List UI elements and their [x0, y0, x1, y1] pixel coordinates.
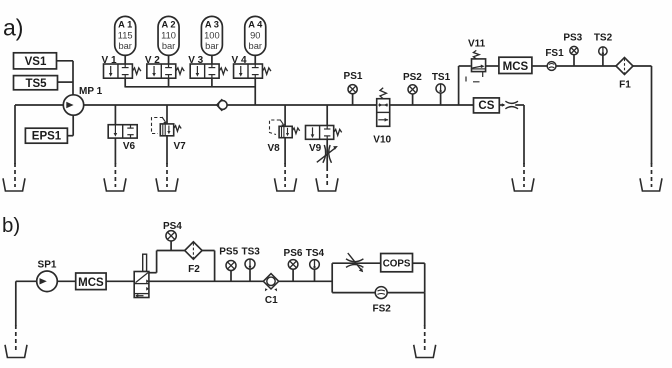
check valve C1 — [263, 274, 278, 292]
wire branch down to main line — [214, 251, 216, 282]
tank T9 — [414, 345, 436, 358]
svg-text:A 1: A 1 — [118, 20, 132, 30]
svg-text:CS: CS — [478, 100, 494, 112]
svg-text:PS5: PS5 — [219, 247, 238, 258]
wire valve to F2 branch — [149, 272, 157, 274]
valve V8 pilot dashed line — [270, 120, 285, 135]
tank T8 — [5, 345, 27, 358]
svg-text:FS1: FS1 — [545, 48, 564, 59]
wire V11 to MCS — [486, 65, 499, 67]
svg-text:F2: F2 — [188, 264, 200, 275]
svg-text:EPS1: EPS1 — [32, 131, 62, 143]
pressure sensor PS6 — [288, 260, 298, 270]
svg-text:TS5: TS5 — [25, 78, 47, 90]
wire bottom branch FS2 — [332, 292, 425, 294]
wire PS6 stem — [292, 269, 294, 281]
svg-text:110: 110 — [161, 30, 176, 40]
svg-text:V 1: V 1 — [102, 55, 117, 66]
wire valve V 3 down to manifold — [211, 78, 213, 87]
valve V11 pilot dashed line — [466, 77, 480, 82]
pump MP 1 — [63, 95, 83, 115]
wire SP1 to MCS — [57, 280, 75, 282]
main line section b — [149, 280, 332, 282]
svg-text:V10: V10 — [373, 135, 391, 146]
pressure sensor PS1 — [348, 85, 357, 94]
dashed drain to tank T8 — [15, 325, 17, 353]
wire branch up to V11 — [458, 66, 460, 105]
dashed drain to tank T2 — [114, 163, 116, 187]
temperature sensor TS3 — [245, 259, 255, 269]
variable restrictor under V9 — [317, 145, 338, 163]
wire TS2 stem — [602, 55, 604, 66]
accumulator A 1 115 bar — [115, 16, 136, 55]
temperature sensor TS2 — [599, 47, 607, 55]
box CS — [474, 98, 500, 113]
wire valve V 4 down to main line — [254, 78, 256, 105]
pump SP1 — [37, 271, 58, 292]
svg-text:V 3: V 3 — [188, 55, 203, 66]
svg-text:PS4: PS4 — [163, 221, 182, 232]
temperature sensor TS4 — [310, 260, 320, 270]
tank T7 — [640, 178, 662, 191]
check valve on main line — [217, 99, 227, 111]
wire pump suction left — [15, 104, 63, 106]
main pressure line section a — [84, 104, 474, 106]
svg-text:bar: bar — [249, 41, 262, 51]
accumulator A 2 110 bar — [158, 16, 179, 55]
tank T2 — [104, 178, 126, 191]
svg-text:V 2: V 2 — [145, 55, 160, 66]
wire valve V 1 down to manifold — [124, 78, 126, 87]
wire loop split — [331, 263, 333, 292]
svg-text:b): b) — [2, 214, 20, 237]
svg-text:V11: V11 — [468, 38, 486, 49]
tank T6 — [512, 178, 534, 191]
box MCS section b — [76, 273, 106, 290]
svg-text:a): a) — [3, 14, 23, 40]
wire PS5 stem — [230, 271, 232, 282]
dashed drain to tank T3 — [166, 163, 168, 187]
svg-text:MCS: MCS — [78, 277, 104, 289]
svg-text:SP1: SP1 — [38, 260, 57, 271]
wire V8 down — [284, 138, 286, 164]
svg-text:90: 90 — [250, 30, 260, 40]
filter F1 — [616, 58, 633, 75]
dashed drain to tank T6 — [523, 163, 525, 187]
dashed drain to tank T7 — [651, 163, 653, 187]
wire main line down to V9 — [326, 105, 328, 126]
dashed drain to tank T5 — [326, 167, 328, 187]
svg-text:F1: F1 — [619, 80, 631, 91]
wire restrictor to drain — [515, 104, 524, 106]
wire COPS to drain — [413, 262, 425, 264]
dashed drain to tank T1 — [14, 163, 16, 187]
valve V10 — [377, 99, 390, 127]
svg-text:100: 100 — [204, 30, 220, 40]
svg-text:PS3: PS3 — [563, 32, 582, 43]
wire VS1 to MP1 — [57, 60, 74, 62]
manifold wire under valves V1-V3 — [125, 86, 255, 88]
dashed drain to tank T4 — [284, 163, 286, 187]
valve V9 — [306, 126, 342, 140]
box MCS — [499, 57, 532, 73]
svg-text:A 3: A 3 — [205, 20, 219, 30]
wire down to tank T9 — [424, 293, 426, 326]
svg-text:TS4: TS4 — [306, 248, 325, 259]
wire to V11 — [459, 65, 471, 67]
pressure sensor PS4 — [166, 231, 176, 241]
svg-text:V7: V7 — [174, 141, 187, 152]
svg-text:TS1: TS1 — [432, 72, 451, 83]
wire TS3 stem — [249, 269, 251, 281]
restrictor after CS — [502, 101, 518, 109]
wire main line down to V8 — [284, 105, 286, 126]
valve V11 — [472, 59, 486, 77]
wire accumulator A 4 to valve V 4 — [254, 55, 256, 64]
hand valve body — [134, 272, 149, 298]
accumulator A 3 100 bar — [201, 16, 222, 55]
svg-text:PS1: PS1 — [344, 71, 363, 82]
wire PS3 stem — [573, 55, 575, 66]
wire V9 down — [326, 139, 328, 167]
wire down to tank T7 — [651, 66, 653, 164]
wire TS5 to vertical — [58, 81, 74, 83]
svg-text:PS6: PS6 — [284, 248, 303, 259]
svg-text:MCS: MCS — [503, 61, 529, 73]
svg-text:V6: V6 — [123, 141, 136, 152]
svg-text:V8: V8 — [268, 143, 281, 154]
wire PS4 stem — [170, 241, 172, 251]
wire FS1 to F1 — [556, 65, 616, 67]
wire branch up — [156, 251, 158, 273]
svg-text:bar: bar — [162, 41, 175, 51]
pressure sensor PS3 — [570, 46, 578, 54]
flow sensor FS2 — [375, 287, 387, 299]
svg-text:115: 115 — [118, 30, 133, 40]
box TS5 — [14, 76, 58, 90]
valve V7 — [160, 124, 181, 136]
svg-text:MP 1: MP 1 — [79, 86, 103, 97]
box VS1 — [14, 53, 57, 69]
svg-text:V9: V9 — [309, 143, 322, 154]
wire EPS1 horizontal — [67, 135, 73, 137]
svg-text:COPS: COPS — [383, 258, 411, 269]
valve V 1 — [104, 64, 141, 78]
tank T4 — [275, 178, 297, 191]
wire V7 down — [166, 136, 168, 164]
wire TS4 stem — [314, 269, 316, 281]
temperature sensor TS1 — [436, 84, 445, 93]
valve V11 spring — [473, 50, 479, 59]
wire F1 to drain — [633, 65, 652, 67]
svg-text:A 4: A 4 — [248, 20, 263, 30]
wire PS2 stem — [412, 94, 414, 105]
svg-text:FS2: FS2 — [373, 303, 392, 314]
wire V6 down — [114, 138, 116, 164]
wire SP1 suction — [16, 280, 37, 282]
wire accumulator A 2 to valve V 2 — [168, 55, 170, 64]
svg-text:TS3: TS3 — [242, 247, 261, 258]
wire down to tank T6 — [523, 105, 525, 164]
wire CS to restrictor — [499, 104, 504, 106]
pressure sensor PS5 — [226, 261, 236, 271]
pressure sensor PS2 — [408, 85, 417, 94]
wire PS1 stem — [352, 94, 354, 105]
wire TS1 stem — [440, 93, 442, 105]
svg-text:TS2: TS2 — [594, 32, 613, 43]
wire down to tank T1 — [14, 105, 16, 164]
dashed drain to tank T9 — [424, 325, 426, 353]
wire main line down to V7 — [166, 105, 168, 124]
filter F2 — [185, 242, 202, 259]
valve V10 spring — [380, 88, 386, 99]
box EPS1 — [25, 128, 67, 143]
wire vertical to pump top — [72, 61, 74, 95]
wire COPS drop — [424, 263, 426, 292]
wire accumulator A 3 to valve V 3 — [211, 55, 213, 64]
wire EPS1 up to pump — [72, 115, 74, 136]
wire top branch to COPS — [332, 262, 381, 264]
flow sensor FS1 — [547, 62, 556, 71]
valve V 4 — [234, 64, 271, 78]
tank T1 — [3, 178, 25, 191]
valve V7 pilot dashed line — [152, 117, 167, 134]
valve V8 — [279, 126, 300, 137]
valve V 2 — [147, 64, 184, 78]
wire valve V 2 down to manifold — [168, 78, 170, 87]
accumulator A 4 90 bar — [245, 16, 266, 55]
wire down to tank T8 — [15, 281, 17, 326]
svg-text:bar: bar — [118, 41, 131, 51]
branch line PS4 F2 — [157, 250, 215, 252]
svg-text:bar: bar — [205, 41, 218, 51]
svg-text:VS1: VS1 — [25, 56, 47, 68]
box COPS — [381, 254, 413, 272]
svg-text:V 4: V 4 — [232, 55, 247, 66]
wire accumulator A 1 to valve V 1 — [124, 55, 126, 64]
tank T5 — [316, 178, 338, 191]
variable restrictor before COPS — [346, 253, 363, 272]
tank T3 — [156, 178, 178, 191]
svg-text:PS2: PS2 — [403, 72, 422, 83]
wire MCS to FS1 — [532, 65, 547, 67]
hand valve actuator stem — [143, 254, 147, 271]
svg-text:A 2: A 2 — [161, 20, 175, 30]
wire MCS to hand valve — [106, 280, 134, 282]
valve V6 — [108, 125, 137, 138]
svg-text:C1: C1 — [265, 295, 278, 306]
valve V 3 — [190, 64, 227, 78]
wire main line down to V6 — [114, 105, 116, 125]
